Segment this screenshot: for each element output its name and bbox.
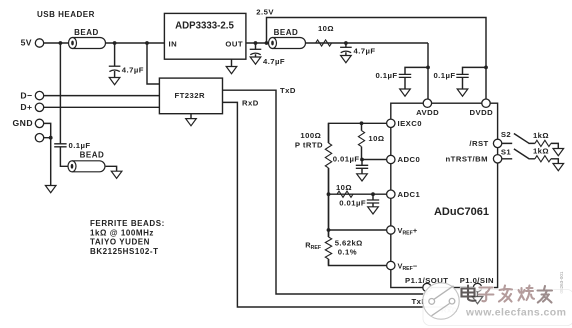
svg-text:1kΩ @ 100MHz: 1kΩ @ 100MHz <box>90 228 154 237</box>
svg-text:D+: D+ <box>20 102 32 112</box>
svg-text:BEAD: BEAD <box>80 151 105 160</box>
svg-text:OUT: OUT <box>225 40 243 49</box>
svg-text:/RST: /RST <box>469 139 488 148</box>
svg-text:BEAD: BEAD <box>274 28 299 37</box>
svg-text:ADuC7061: ADuC7061 <box>434 206 489 218</box>
svg-text:ADC1: ADC1 <box>398 190 421 199</box>
svg-text:4.7µF: 4.7µF <box>263 57 285 66</box>
svg-text:5V: 5V <box>21 38 32 48</box>
svg-text:ADP3333-2.5: ADP3333-2.5 <box>175 21 234 32</box>
svg-text:DVDD: DVDD <box>470 108 494 117</box>
svg-text:FERRITE BEADS:: FERRITE BEADS: <box>90 219 165 228</box>
svg-text:0.1µF: 0.1µF <box>433 71 455 80</box>
svg-text:S1: S1 <box>501 148 512 157</box>
svg-text:BK2125HS102-T: BK2125HS102-T <box>90 247 159 256</box>
svg-text:IEXC0: IEXC0 <box>398 119 422 128</box>
svg-text:TAIYO YUDEN: TAIYO YUDEN <box>90 238 150 247</box>
svg-text:4.7µF: 4.7µF <box>122 65 144 74</box>
svg-text:10Ω: 10Ω <box>368 134 384 143</box>
svg-text:10Ω: 10Ω <box>336 183 352 192</box>
svg-text:0.1µF: 0.1µF <box>69 141 91 150</box>
svg-text:GND: GND <box>13 118 33 128</box>
svg-text:5.62kΩ: 5.62kΩ <box>335 239 363 248</box>
svg-text:USB HEADER: USB HEADER <box>37 10 95 19</box>
svg-text:100Ω: 100Ω <box>300 131 321 140</box>
svg-text:ADC0: ADC0 <box>398 155 421 164</box>
svg-text:4.7µF: 4.7µF <box>354 47 376 56</box>
svg-text:IN: IN <box>169 40 178 49</box>
svg-text:nTRST/BM: nTRST/BM <box>446 155 488 164</box>
svg-text:RxD: RxD <box>242 99 259 108</box>
svg-text:0.01µF: 0.01µF <box>333 155 360 164</box>
svg-text:www.elecfans.com: www.elecfans.com <box>465 307 566 319</box>
svg-text:1kΩ: 1kΩ <box>533 147 549 156</box>
svg-text:FT232R: FT232R <box>175 91 205 100</box>
svg-text:1kΩ: 1kΩ <box>533 131 549 140</box>
svg-text:10Ω: 10Ω <box>318 24 334 33</box>
svg-text:P tRTD: P tRTD <box>295 141 323 150</box>
svg-text:S2: S2 <box>501 130 511 139</box>
svg-text:0.1%: 0.1% <box>338 248 357 257</box>
svg-text:TxD: TxD <box>280 86 296 95</box>
svg-text:2.5V: 2.5V <box>256 8 274 17</box>
svg-text:BEAD: BEAD <box>74 28 99 37</box>
svg-text:0.1µF: 0.1µF <box>375 71 397 80</box>
svg-text:AVDD: AVDD <box>416 108 439 117</box>
svg-text:P1.0/SIN: P1.0/SIN <box>460 276 494 285</box>
svg-text:0.01µF: 0.01µF <box>339 199 366 208</box>
svg-text:D−: D− <box>20 91 32 101</box>
